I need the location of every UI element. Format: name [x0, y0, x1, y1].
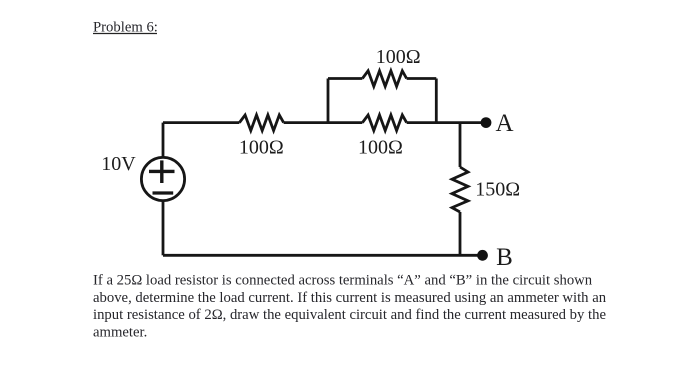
terminal A dot: [481, 117, 492, 128]
wire bottom horizontal: [163, 254, 483, 257]
voltage source minus sign: [153, 191, 174, 194]
wire left vertical below source: [162, 200, 165, 255]
wire 150ohm branch upper: [459, 123, 462, 167]
svg-text:input resistance of 2Ω, draw t: input resistance of 2Ω, draw the equival…: [93, 307, 606, 323]
svg-text:150Ω: 150Ω: [475, 179, 520, 201]
resistor R2 100ohm (main line, under parallel branch): [362, 115, 406, 131]
voltage source plus sign: [149, 160, 175, 183]
svg-text:100Ω: 100Ω: [239, 137, 284, 159]
wire top-left horizontal: [163, 121, 239, 124]
wire parallel branch top right: [407, 77, 437, 80]
resistor R1 100ohm (main line left): [239, 115, 283, 131]
svg-text:10V: 10V: [101, 153, 136, 175]
wire parallel branch top left: [328, 77, 362, 80]
voltage source V1 circle: [141, 157, 184, 200]
wire 150ohm branch lower: [459, 212, 462, 255]
svg-text:100Ω: 100Ω: [376, 46, 421, 68]
svg-text:A: A: [495, 110, 513, 137]
svg-text:above, determine the load curr: above, determine the load current. If th…: [93, 290, 607, 306]
wire parallel branch left riser: [327, 79, 330, 123]
resistor R3 100ohm (parallel top): [362, 71, 406, 87]
svg-text:100Ω: 100Ω: [358, 137, 403, 159]
terminal B dot: [477, 250, 488, 261]
wire parallel branch right riser: [435, 79, 438, 123]
svg-text:B: B: [496, 244, 513, 271]
resistor R4 150ohm (vertical): [452, 167, 468, 212]
wire left vertical above source: [162, 123, 165, 158]
wire between R1 and parallel section: [284, 121, 363, 124]
svg-text:ammeter.: ammeter.: [93, 324, 147, 340]
wire from R2 to terminal A: [407, 121, 486, 124]
svg-text:If a 25Ω load resistor is conn: If a 25Ω load resistor is connected acro…: [93, 273, 593, 289]
